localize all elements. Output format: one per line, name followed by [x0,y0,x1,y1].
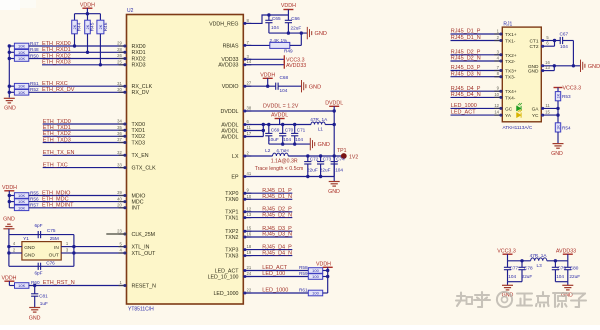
svg-text:1uF: 1uF [40,301,48,306]
svg-text:ETH_MDINT: ETH_MDINT [42,203,74,209]
svg-text:104: 104 [271,25,279,30]
svg-text:R44: R44 [77,22,83,31]
svg-text:11: 11 [545,103,550,108]
svg-text:CLK_25M: CLK_25M [132,232,156,238]
svg-text:C65: C65 [272,16,281,21]
ground (AVDD33 caps) [567,282,569,286]
resistor R46 [99,14,101,21]
svg-text:TX2+: TX2+ [505,53,517,59]
svg-text:RJ45_D3_N: RJ45_D3_N [451,71,481,77]
ground (C81) [29,307,40,309]
U2 pin 20 INT [119,207,127,209]
svg-text:L3: L3 [537,263,543,268]
svg-text:27: 27 [247,81,252,86]
svg-text:INT: INT [132,206,141,212]
svg-text:11: 11 [247,125,252,130]
wire [553,66,555,71]
svg-text:GA: GA [532,106,540,112]
U2 pin 26 RXD2 [119,58,127,60]
wire [288,155,341,157]
svg-text:CT1: CT1 [529,39,538,45]
wire pin27 [243,85,275,87]
resistor R54 [557,115,559,123]
wire [555,281,567,283]
svg-text:10K: 10K [18,199,25,204]
svg-text:AVDDL: AVDDL [221,134,238,140]
pin 3 [61,252,74,254]
svg-text:GC: GC [505,106,513,112]
svg-text:LED_1000: LED_1000 [262,288,288,294]
svg-text:22uF: 22uF [320,168,331,173]
svg-text:RJ45_D2_P: RJ45_D2_P [451,49,481,55]
wire pin38 [243,110,334,112]
capacitor C68 [275,83,277,90]
svg-text:R61: R61 [299,288,308,293]
svg-text:33: 33 [117,162,122,167]
U2 pin 7 RBIAS [243,44,251,46]
wire net RJ45_D1_P [243,192,292,194]
svg-text:10K: 10K [18,205,25,210]
wire net RJ45_D3_N [243,236,292,238]
svg-text:47R, 1A: 47R, 1A [530,253,548,258]
svg-text:C76: C76 [46,260,55,265]
resistor R61 [308,290,322,296]
svg-text:C73: C73 [323,157,332,162]
U2 pin 38 DVDDL [243,110,251,112]
svg-text:ETH_RX_DV: ETH_RX_DV [42,87,75,93]
U2 pin 30 RX_DV [119,91,127,93]
RJ1 pin 2 TX1- net RJ45_D1_N [451,40,503,42]
pin 4 [9,246,22,248]
U2 pin 35 TXD1 [119,129,127,131]
capacitor C78 [521,261,523,268]
svg-text:2K: 2K [86,24,90,29]
U2 pin 21 LED_ACT [243,270,251,272]
resistor R58 [308,268,322,274]
svg-text:GTX_CLK: GTX_CLK [132,166,157,172]
svg-text:R45: R45 [90,22,96,31]
RJ1 pin 15 YC [541,114,558,116]
svg-text:104: 104 [295,137,303,142]
svg-text:25M: 25M [50,236,59,241]
svg-text:R53: R53 [562,94,571,99]
ground port [306,27,308,39]
wire pin14 [243,64,284,66]
U2 pin 29 RXD0 [119,45,127,47]
svg-text:22uF: 22uF [307,168,318,173]
svg-text:10uF: 10uF [268,137,279,142]
wire net ETH_TXD0 [43,123,127,125]
RJ1 pin 5 CT1 [541,40,554,42]
wire DVDDL rail [333,111,335,177]
RJ1 pin 9 TX4+ net RJ45_D4_P [451,90,503,92]
power port VCC3.3 [283,55,285,63]
capacitor C69 [268,125,270,134]
ground (RJ LED) [553,143,564,145]
svg-text:TX3-: TX3- [505,75,516,81]
svg-text:C77: C77 [510,266,519,271]
svg-text:30: 30 [117,87,122,92]
wire gnd rail [269,143,311,145]
U2 pin 17 AVDDL [243,136,251,138]
svg-text:LED_ACT: LED_ACT [451,110,476,116]
wire pin3 [243,58,284,60]
svg-text:RJ45_D3_N: RJ45_D3_N [262,232,292,238]
svg-text:R54: R54 [562,126,571,131]
svg-text:VDDH: VDDH [80,2,95,8]
wire [9,265,74,267]
svg-text:GND: GND [24,245,35,251]
svg-text:ETH_TXD1: ETH_TXD1 [43,125,71,131]
node AVDDL [263,124,311,126]
svg-text:VDDH: VDDH [2,185,17,191]
svg-text:VDDH: VDDH [1,275,16,281]
wire gnd rail [269,32,307,34]
svg-text:ETH_RXC: ETH_RXC [42,81,68,87]
U2 pin 32 TX_EN [119,154,127,156]
capacitor C67 [555,40,561,42]
svg-text:ETH_TXD0: ETH_TXD0 [43,119,71,125]
svg-text:25: 25 [117,60,122,65]
capacitor C74 [333,156,335,162]
svg-text:TXN3: TXN3 [225,254,239,260]
svg-text:C67: C67 [560,32,569,37]
svg-text:ETH_MDIO: ETH_MDIO [42,190,71,196]
svg-text:TX1+: TX1+ [505,32,517,38]
U2 pin 19 TXN3 [243,255,251,257]
svg-text:LED_1000: LED_1000 [451,103,477,109]
resistor R53 [555,92,560,101]
svg-text:ETH_RST_N: ETH_RST_N [43,280,75,286]
U2 pin 14 AVDD33 [243,64,251,66]
capacitor C81 [34,286,36,294]
svg-text:22uF: 22uF [522,274,533,279]
svg-text:GND: GND [29,315,41,321]
capacitor C73 [320,156,322,162]
wire net RJ45_D4_N [243,255,292,257]
wire net ETH_RX_DV [29,91,127,93]
svg-text:13: 13 [247,212,252,217]
wire net ETH_TXD2 [43,135,127,137]
svg-text:DVDDL: DVDDL [221,109,239,115]
svg-text:28: 28 [117,47,122,52]
wire net ETH_RXD2 [29,58,127,60]
svg-text:R48: R48 [30,47,39,52]
test point TP1 1V2 [341,153,347,159]
svg-text:RJ45_D2_N: RJ45_D2_N [262,212,292,218]
resistor R57 [9,207,14,209]
resistor R48 [9,51,14,53]
watermark Zhihu @zhengdianyuanzi [456,292,586,307]
svg-text:15: 15 [247,226,252,231]
wire net ETH_RXD0 [29,45,127,47]
svg-text:36: 36 [117,131,122,136]
resistor R52 [9,91,14,93]
svg-text:C81: C81 [39,294,48,299]
svg-text:6pF: 6pF [34,270,42,275]
resistor R60 [9,285,14,287]
svg-text:GND: GND [318,142,330,148]
svg-text:YC: YC [532,113,539,119]
wire net RJ45_D4_P [243,249,292,251]
svg-text:10: 10 [247,194,252,199]
U2 pin 28 RXD1 [119,51,127,53]
svg-text:GND: GND [588,64,600,70]
svg-text:C74: C74 [336,157,345,162]
svg-text:12: 12 [247,206,252,211]
svg-text:VCC3.3: VCC3.3 [563,86,582,92]
capacitor C72 [307,156,309,162]
svg-text:OUT: OUT [49,252,59,258]
svg-text:LED_1000: LED_1000 [213,291,238,297]
svg-text:40: 40 [117,196,122,201]
U2 pin 3 VDD33 [243,58,251,60]
svg-text:10K: 10K [18,283,25,288]
svg-text:ETH_TXC: ETH_TXC [43,162,68,168]
svg-text:TX4+: TX4+ [505,89,517,95]
U2 pin 15 TXP2 [243,230,251,232]
svg-text:1K: 1K [556,93,560,98]
RJ1 pin 12 GC net LED_1000 [451,107,503,109]
resistor R45 [87,14,89,21]
capacitor C65 [268,15,270,20]
svg-text:23: 23 [117,229,122,234]
svg-text:10K: 10K [18,56,25,61]
svg-text:R52: R52 [30,87,39,92]
svg-text:RESET_N: RESET_N [132,283,157,289]
RJ1 pin 1 TX1+ net RJ45_D1_P [451,33,503,35]
svg-text:ATKH1113A/C: ATKH1113A/C [503,125,533,130]
pin 2 [9,252,22,254]
svg-text:R46: R46 [103,22,109,31]
svg-text:VDDH: VDDH [281,3,296,9]
svg-text:R55: R55 [30,190,39,195]
wire [8,235,10,267]
svg-text:100: 100 [312,274,319,279]
svg-text:TP1: TP1 [337,148,347,154]
U2 pin 1 RESET_N [119,285,127,287]
wire net ETH_RXC [29,85,127,87]
U2 pin 16 TXN2 [243,236,251,238]
inductor L3 [531,258,547,261]
wire [327,267,329,293]
wire net RJ45_D2_N [243,217,292,219]
power port VCC3.3 (RJ LED) [554,87,563,89]
svg-text:TX3+: TX3+ [505,69,517,75]
IC U2 YT8511C/H body [127,15,244,305]
svg-text:RBIAS: RBIAS [223,43,239,49]
svg-text:LED_10_100: LED_10_100 [208,274,239,280]
svg-text:2.4K 1%: 2.4K 1% [270,38,288,43]
svg-text:C69: C69 [271,128,280,133]
svg-text:AVDD33: AVDD33 [218,63,238,69]
wire [554,41,556,47]
wire pin2 LX [243,155,272,157]
wire net ETH_RXD1 [29,51,127,53]
wire (pull-down rail) [8,46,10,98]
svg-text:C72: C72 [310,157,319,162]
resistor R55 [9,195,14,197]
svg-text:XTL_IN: XTL_IN [132,245,150,251]
wire net ETH_TXD3 [43,142,127,144]
svg-text:TXD3: TXD3 [132,140,146,146]
svg-text:TXN2: TXN2 [225,235,239,241]
svg-text:TXD0: TXD0 [132,122,146,128]
svg-text:100: 100 [312,268,319,273]
svg-text:RJ45_D4_N: RJ45_D4_N [262,250,292,256]
svg-text:MDIO: MDIO [132,193,146,199]
svg-text:RX_CLK: RX_CLK [132,84,153,90]
RJ1 inner green LED [517,106,522,111]
ground (1V2 rail) [333,177,335,182]
svg-text:ETH_TXD2: ETH_TXD2 [43,131,71,137]
svg-text:Trace length < 0.5cm: Trace length < 0.5cm [255,166,304,172]
svg-text:CT2: CT2 [529,44,538,50]
svg-text:14: 14 [247,59,252,64]
RJ1 pin 7 TX3+ net RJ45_D3_P [451,70,503,72]
svg-text:18: 18 [247,244,252,249]
svg-text:ETH_TX_EN: ETH_TX_EN [43,150,75,156]
svg-text:C80: C80 [570,266,579,271]
svg-text:GND: GND [3,216,15,222]
svg-text:1.1A@0.3R: 1.1A@0.3R [271,158,298,164]
wire net ETH_RST_N [29,285,127,287]
svg-text:104: 104 [280,88,288,93]
resistor R50 [9,58,14,60]
RJ1 pin 11 GA [541,107,558,109]
RJ1 pin 13 GND [541,70,554,72]
U2 pin 2 LX [243,155,251,157]
U2 pin 6 AVDDL [243,124,251,126]
svg-text:19: 19 [247,250,252,255]
svg-text:38: 38 [247,106,252,111]
svg-text:RXD1: RXD1 [132,50,146,56]
U2 pin 41 EP [243,176,251,178]
svg-text:16: 16 [247,232,252,237]
svg-text:GND: GND [528,69,539,75]
svg-text:2K: 2K [99,24,103,29]
svg-text:6pF: 6pF [34,223,42,228]
U2 pin 23 CLK_25M [119,233,127,235]
wire [73,235,75,267]
wire net ETH_MDC [29,201,127,203]
svg-text:4.7uH: 4.7uH [276,148,289,153]
svg-text:1K: 1K [556,125,560,130]
svg-text:10K: 10K [18,44,25,49]
svg-text:RJ1: RJ1 [503,21,512,27]
capacitor C80 [567,261,569,268]
svg-text:22uF: 22uF [569,274,580,279]
svg-text:RX_DV: RX_DV [132,90,150,96]
svg-text:GND: GND [551,151,563,157]
svg-text:AVDD33: AVDD33 [286,63,306,69]
wire net ETH_RXD3 [42,64,127,66]
svg-text:10K: 10K [18,50,25,55]
svg-text:GND: GND [4,105,16,111]
svg-text:47R, 1A: 47R, 1A [310,117,328,122]
svg-text:21: 21 [247,265,252,270]
svg-text:RJ45_D3_P: RJ45_D3_P [451,65,481,71]
svg-text:AVDDL: AVDDL [271,113,288,119]
svg-text:RJ45_D1_P: RJ45_D1_P [262,188,292,194]
resistor R51 [9,85,14,87]
svg-text:17: 17 [247,131,252,136]
svg-text:RXD0: RXD0 [132,44,146,50]
svg-text:RXD3: RXD3 [132,63,146,69]
connector RJ1 body [502,27,541,122]
svg-text:ETH_RXD3: ETH_RXD3 [42,60,71,66]
svg-text:10: 10 [494,92,499,97]
svg-text:15: 15 [545,110,550,115]
U2 pin 33 GTX_CLK [119,167,127,169]
svg-text:14: 14 [494,110,499,115]
svg-text:TX4-: TX4- [505,95,516,101]
svg-text:C68: C68 [280,75,289,80]
svg-text:TX2-: TX2- [505,59,516,65]
svg-text:R58: R58 [299,265,308,270]
wire [278,85,301,87]
RJ1 pin 10 TX4- net RJ45_D4_N [451,96,503,98]
RJ1 pin 8 TX3- net RJ45_D3_N [451,76,503,78]
svg-text:R51: R51 [30,81,39,86]
svg-text:22: 22 [247,288,252,293]
svg-text:RJ45_D1_N: RJ45_D1_N [451,35,481,41]
U2 pin 12 TXP1 [243,211,251,213]
svg-text:RJ45_D1_P: RJ45_D1_P [451,29,481,35]
svg-text:29: 29 [117,41,122,46]
RJ1 pin 6 CT2 [541,45,554,47]
U2 pin 24 LED_10_100 [243,276,251,278]
U2 pin 9 TXP0 [243,192,251,194]
svg-text:TXP0: TXP0 [225,191,238,197]
svg-text:EP: EP [231,174,239,180]
resistor R49 [243,44,269,46]
wire [9,234,74,236]
svg-text:Y1: Y1 [23,236,29,241]
svg-text:RJ45_D4_P: RJ45_D4_P [451,86,481,92]
resistor R47 [9,45,14,47]
U2 pin 25 RXD3 [119,64,127,66]
svg-text:2K: 2K [73,24,77,29]
pin 1 [61,246,74,248]
capacitor C79 [554,261,556,268]
capacitor C71 [294,125,296,134]
wire [75,13,101,15]
svg-text:13: 13 [545,65,550,70]
svg-text:IN: IN [54,245,59,251]
svg-text:U2: U2 [127,8,134,14]
svg-text:R47: R47 [30,41,39,46]
svg-text:L2: L2 [265,148,271,153]
RJ1 pin 14 YA net LED_ACT [451,114,503,116]
svg-text:39: 39 [117,190,122,195]
U2 pin 27 VDDIO [243,85,251,87]
svg-text:TX1-: TX1- [505,39,516,45]
wire pin8 [243,15,288,23]
svg-text:100: 100 [312,291,319,296]
wire net RJ45_D2_P [243,211,292,213]
wire [572,41,574,66]
svg-text:YT8511C/H: YT8511C/H [128,306,154,312]
svg-text:RXD2: RXD2 [132,56,146,62]
wire net LED_ACT [243,270,308,272]
RJ1 pin 3 TX2+ net RJ45_D2_P [451,54,503,56]
ground (VCC3.3 caps) [507,282,509,286]
svg-text:10K: 10K [18,90,25,95]
resistor R56 [9,201,14,203]
U2 pin 31 RX_CLK [119,85,127,87]
svg-text:R59: R59 [299,271,308,276]
